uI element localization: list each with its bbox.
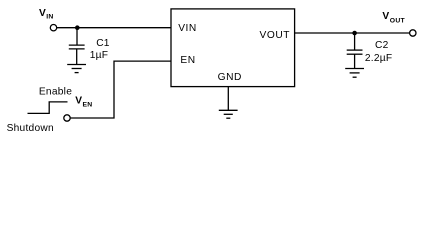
- svg-text:EN: EN: [83, 101, 93, 108]
- wire GND pin: [227, 87, 229, 110]
- node input junction: [75, 25, 80, 30]
- svg-text:Enable: Enable: [39, 87, 72, 98]
- svg-text:Shutdown: Shutdown: [7, 123, 54, 134]
- op-amp U1 regulator box: [171, 9, 295, 87]
- node output junction: [352, 31, 357, 36]
- wire EN path: [70, 61, 171, 118]
- terminal VIN circle: [50, 25, 56, 31]
- svg-text:OUT: OUT: [390, 17, 406, 24]
- terminal VEN circle: [64, 115, 70, 121]
- svg-text:2.2µF: 2.2µF: [365, 53, 393, 64]
- capacitor C2: [347, 50, 363, 68]
- svg-text:C1: C1: [96, 38, 110, 49]
- waveform enable step: [28, 102, 68, 114]
- svg-text:C2: C2: [375, 40, 389, 51]
- svg-text:IN: IN: [46, 14, 53, 21]
- svg-text:1µF: 1µF: [90, 50, 109, 61]
- wire VOUT output rail: [295, 32, 410, 34]
- label VEN terminal: [75, 96, 92, 109]
- terminal VOUT circle: [410, 30, 416, 36]
- label VOUT terminal: [382, 11, 405, 25]
- svg-text:GND: GND: [218, 72, 242, 83]
- wire junction to C1: [76, 28, 78, 45]
- wire VIN input rail: [57, 27, 171, 29]
- ground below C2: [345, 69, 364, 78]
- label VIN terminal: [39, 8, 54, 20]
- wire junction to C2: [354, 33, 356, 50]
- capacitor C1: [69, 45, 85, 64]
- ground below U1: [219, 110, 238, 118]
- svg-text:VOUT: VOUT: [260, 30, 291, 41]
- svg-text:V: V: [382, 11, 389, 22]
- svg-text:V: V: [75, 96, 82, 107]
- svg-text:EN: EN: [180, 55, 195, 66]
- ground below C1: [67, 65, 86, 73]
- svg-text:VIN: VIN: [178, 23, 197, 34]
- svg-text:V: V: [39, 8, 46, 19]
